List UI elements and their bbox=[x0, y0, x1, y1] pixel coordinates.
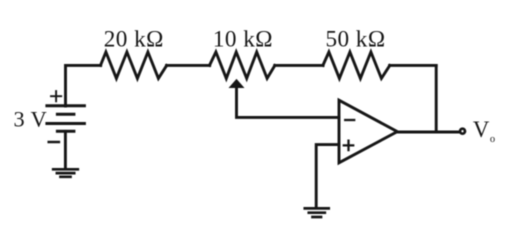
svg-text:V: V bbox=[31, 107, 47, 132]
battery negative sign bbox=[49, 141, 59, 144]
svg-text:10 kΩ: 10 kΩ bbox=[213, 26, 273, 52]
ground (op-amp) bbox=[305, 208, 329, 217]
potentiometer R2 10 kOhm bbox=[210, 52, 275, 78]
resistor R3 50 kOhm bbox=[323, 52, 390, 78]
wire: battery negative to ground bbox=[64, 131, 67, 168]
wire: R2 to R3 bbox=[275, 64, 323, 67]
ground (battery) bbox=[53, 169, 78, 177]
battery positive sign bbox=[51, 91, 61, 101]
battery V1 plates (3 V source) bbox=[47, 106, 85, 132]
wire: R3 to feedback corner bbox=[390, 64, 437, 67]
wire: R1 to R2 bbox=[167, 64, 210, 67]
op-amp inverting input minus marker bbox=[345, 119, 354, 121]
wire: battery positive up and over to R1 bbox=[66, 65, 101, 106]
wire: feedback from top wire down to output node bbox=[435, 65, 438, 132]
svg-text:20 kΩ: 20 kΩ bbox=[104, 26, 164, 52]
svg-text:3: 3 bbox=[14, 107, 25, 132]
wire: op-amp output to terminal bbox=[397, 131, 460, 134]
wire: wiper to op-amp inverting input bbox=[237, 87, 339, 117]
op-amp U1 triangle bbox=[339, 100, 397, 163]
svg-text:V: V bbox=[473, 117, 490, 142]
op-amp non-inverting input plus marker bbox=[344, 141, 353, 150]
svg-text:o: o bbox=[490, 134, 495, 145]
wire: non-inverting input to ground bbox=[316, 145, 339, 207]
resistor R1 20 kOhm bbox=[101, 52, 167, 78]
potentiometer wiper arrow bbox=[229, 79, 245, 88]
svg-text:50 kΩ: 50 kΩ bbox=[325, 26, 385, 52]
output terminal node bbox=[460, 129, 465, 134]
